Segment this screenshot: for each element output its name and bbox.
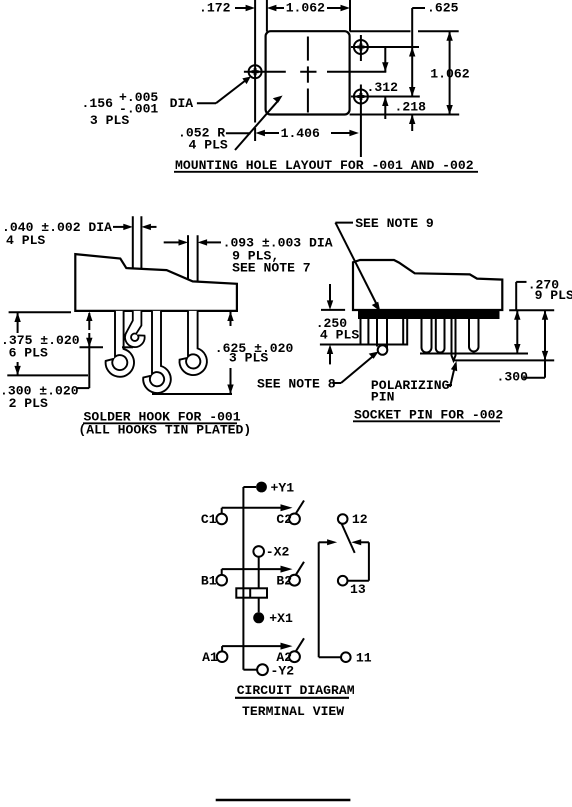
dimension .300 line right bbox=[544, 310, 546, 377]
reference line hooks bottom .375 bbox=[7, 374, 88, 376]
svg-text:CIRCUIT DIAGRAM: CIRCUIT DIAGRAM bbox=[237, 683, 355, 698]
svg-text:1.406: 1.406 bbox=[281, 126, 320, 141]
svg-text:B1: B1 bbox=[201, 574, 217, 589]
wire coil to +X1 bbox=[258, 598, 260, 613]
dimension .250 ticks and arrows bbox=[321, 309, 345, 311]
extension line: body top edge to right bbox=[350, 30, 411, 32]
terminal 12 bbox=[338, 514, 348, 524]
dimension .375 line bbox=[17, 313, 19, 333]
contact travel arrows bbox=[319, 541, 330, 543]
terminal 13 bbox=[338, 576, 348, 586]
svg-text:3 PLS: 3 PLS bbox=[229, 351, 268, 366]
svg-text:(ALL HOOKS TIN PLATED): (ALL HOOKS TIN PLATED) bbox=[78, 423, 251, 438]
svg-text:PIN: PIN bbox=[371, 390, 395, 405]
svg-text:.156: .156 bbox=[82, 96, 114, 111]
dimension 1.406 bbox=[255, 130, 265, 136]
extension line: bottom-right hole centerline bbox=[351, 96, 420, 98]
terminal -X2 bbox=[253, 546, 264, 557]
reference line socket pin bottoms bbox=[420, 353, 528, 355]
contact blade A2 bbox=[296, 638, 305, 652]
wire left side to 11 bbox=[318, 542, 320, 657]
leader see note 9 bbox=[335, 222, 353, 224]
reference line polarizing pin bottom bbox=[453, 359, 555, 361]
socket pin C bbox=[436, 319, 445, 353]
solder hook A bbox=[106, 311, 134, 377]
leader .052 R to corner radius bbox=[226, 132, 251, 134]
dimension .270 line bbox=[516, 310, 518, 353]
svg-text:TERMINAL VIEW: TERMINAL VIEW bbox=[242, 704, 344, 719]
socket pin B bbox=[422, 319, 432, 353]
svg-text:4 PLS: 4 PLS bbox=[6, 233, 45, 248]
extension line: horizontal centerline to right bbox=[327, 71, 386, 73]
terminal pin 2 (.093) bbox=[187, 235, 189, 311]
dimension 1.062 horizontal bbox=[267, 5, 277, 11]
solder hook body outline bbox=[75, 254, 237, 311]
svg-text:+Y1: +Y1 bbox=[271, 481, 295, 496]
svg-text:+X1: +X1 bbox=[269, 611, 293, 626]
extension line: body left edge vertical bbox=[266, 0, 268, 32]
terminal 11 bbox=[341, 652, 351, 662]
extension line: top-right hole centerline bbox=[351, 46, 419, 48]
dimension 1.062 vertical bbox=[449, 31, 451, 114]
socket pin D bbox=[469, 319, 479, 351]
socket body outline bbox=[353, 260, 502, 310]
terminal +Y1 bbox=[243, 486, 256, 488]
socket header strip bbox=[358, 310, 500, 319]
svg-text:SEE NOTE 7: SEE NOTE 7 bbox=[232, 261, 311, 276]
leader polarizing pin bbox=[447, 384, 452, 386]
svg-text:12: 12 bbox=[352, 512, 368, 527]
dimension .040 arrows at pin bbox=[113, 226, 124, 228]
wire main vertical bus bbox=[242, 487, 244, 670]
wire bus to -Y2 bbox=[243, 669, 257, 671]
tick line right upper bbox=[509, 309, 554, 311]
svg-text:9 PLS: 9 PLS bbox=[535, 288, 572, 303]
svg-text:SOCKET PIN FOR -002: SOCKET PIN FOR -002 bbox=[354, 408, 503, 423]
svg-text:-Y2: -Y2 bbox=[271, 664, 295, 679]
centerline cross bbox=[307, 37, 309, 61]
svg-text:.312: .312 bbox=[367, 80, 399, 95]
dimension .270 bracket bbox=[516, 281, 526, 283]
wire B row bbox=[221, 569, 223, 575]
extension line body bottom left bbox=[9, 311, 71, 313]
footer separator line bbox=[216, 799, 351, 802]
reference line small hook bottom bbox=[80, 346, 104, 348]
solder hook B (long) bbox=[143, 311, 171, 393]
terminal -Y2 bbox=[257, 664, 268, 675]
svg-text:.172: .172 bbox=[199, 1, 231, 16]
extension line: left hole centerline vertical bbox=[254, 0, 256, 123]
svg-text:4 PLS: 4 PLS bbox=[189, 138, 228, 153]
mounting hole bottom right bbox=[354, 90, 368, 104]
leader see note 8 bbox=[333, 382, 341, 384]
socket pin 0 (short) bbox=[361, 319, 369, 345]
mounting hole left bbox=[249, 65, 262, 78]
extension line: body bottom edge to right bbox=[350, 114, 460, 116]
svg-text:6 PLS: 6 PLS bbox=[9, 346, 48, 361]
solder hook C bbox=[179, 311, 206, 375]
socket pin short A2 bbox=[403, 319, 407, 345]
svg-text:SEE NOTE 8: SEE NOTE 8 bbox=[257, 377, 336, 392]
svg-text:13: 13 bbox=[350, 582, 366, 597]
leader .156 to left hole bbox=[197, 102, 216, 104]
reference line long hook bottom bbox=[152, 393, 232, 395]
relay coil bbox=[236, 588, 267, 597]
svg-text:3 PLS: 3 PLS bbox=[90, 113, 129, 128]
svg-text:-X2: -X2 bbox=[266, 545, 290, 560]
svg-text:2 PLS: 2 PLS bbox=[9, 396, 48, 411]
mounting hole top right bbox=[354, 40, 368, 54]
svg-text:1.062: 1.062 bbox=[286, 1, 325, 16]
socket pin A with hook curl bbox=[376, 319, 378, 347]
svg-text:.218: .218 bbox=[395, 100, 427, 115]
contact blade C2 bbox=[296, 501, 305, 515]
terminal pin 1 (.040) bbox=[132, 216, 134, 311]
svg-text:MOUNTING HOLE LAYOUT FOR -001: MOUNTING HOLE LAYOUT FOR -001 AND -002 bbox=[175, 158, 474, 173]
dimension .300 line bbox=[88, 313, 90, 330]
svg-text:DIA: DIA bbox=[170, 96, 194, 111]
small solder hook under pin 1 bbox=[125, 311, 145, 347]
wire -X2 to coil bbox=[258, 557, 260, 589]
contact blade B2 bbox=[296, 562, 305, 576]
contact blade 12 bbox=[342, 524, 355, 553]
polarizing pin bbox=[452, 319, 456, 361]
svg-text:A1: A1 bbox=[202, 650, 218, 665]
svg-text:.625: .625 bbox=[427, 1, 459, 16]
dimension .625 line bbox=[230, 312, 232, 327]
dimension .093 arrows at pin bbox=[164, 241, 179, 243]
svg-text:1.062: 1.062 bbox=[430, 67, 469, 82]
svg-text:SEE NOTE 9: SEE NOTE 9 bbox=[355, 216, 434, 231]
terminal +X1 bbox=[253, 612, 264, 623]
wire 12-13 right side bbox=[368, 542, 370, 580]
dimension .312 bbox=[384, 48, 386, 72]
relay body outline (mounting hole layout) bbox=[266, 31, 350, 114]
wire A row bbox=[221, 646, 223, 651]
svg-text:C1: C1 bbox=[201, 512, 217, 527]
wire C row bbox=[221, 508, 223, 514]
svg-text:4 PLS: 4 PLS bbox=[320, 328, 359, 343]
svg-text:11: 11 bbox=[356, 651, 372, 666]
extension line: body right edge vertical bbox=[349, 0, 351, 32]
